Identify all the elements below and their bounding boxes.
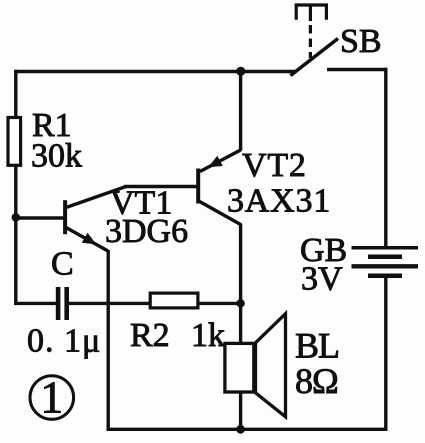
wire top rail	[14, 70, 296, 73]
svg-text:3AX31: 3AX31	[227, 183, 331, 220]
svg-text:8Ω: 8Ω	[295, 361, 338, 401]
resistor R1	[8, 118, 21, 166]
wire left rail to capacitor	[14, 302, 57, 305]
wire VT2 emitter vertical	[239, 70, 242, 151]
svg-text:30k: 30k	[31, 138, 82, 175]
svg-text:VT2: VT2	[242, 147, 307, 184]
node VT1 base junction	[12, 213, 21, 222]
svg-text:3V: 3V	[301, 261, 343, 298]
switch SB	[291, 5, 339, 76]
wire right rail lower	[384, 276, 387, 431]
node collector/R2/speaker junction	[236, 299, 244, 307]
transistor VT1	[63, 187, 126, 252]
wire switch to right corner	[327, 68, 388, 71]
wire R2 to node	[199, 302, 241, 305]
wire capacitor to R2	[67, 302, 149, 305]
svg-text:BL: BL	[295, 326, 339, 366]
transistor VT2	[196, 150, 240, 225]
resistor R2	[150, 293, 198, 308]
wire VT1 collector to VT2 base	[124, 185, 197, 188]
wire bottom rail	[107, 428, 388, 431]
wire speaker to bottom rail	[239, 393, 242, 431]
node top junction	[236, 67, 245, 76]
node speaker bottom junction	[236, 425, 245, 434]
svg-text:0. 1μ: 0. 1μ	[27, 323, 101, 360]
speaker BL	[225, 314, 286, 417]
svg-text:1k: 1k	[191, 317, 225, 354]
wire VT2 collector vertical	[239, 224, 242, 305]
wire right rail upper	[384, 68, 387, 247]
svg-text:R2: R2	[130, 317, 170, 354]
wire VT1 base	[15, 216, 64, 219]
battery GB	[352, 248, 419, 276]
svg-text:1: 1	[40, 372, 63, 423]
svg-text:SB: SB	[340, 23, 382, 60]
wire VT1 emitter vertical	[106, 250, 109, 431]
svg-text:3DG6: 3DG6	[105, 213, 188, 250]
svg-text:C: C	[51, 246, 74, 283]
wire node to speaker	[239, 303, 242, 344]
capacitor C	[56, 287, 69, 320]
figure number circled 1	[30, 372, 74, 423]
wire left rail	[14, 70, 17, 305]
